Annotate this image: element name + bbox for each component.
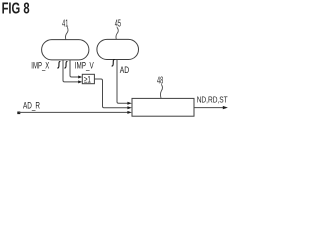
svg-text:AD: AD	[120, 65, 129, 75]
svg-text:AD_R: AD_R	[23, 101, 40, 111]
pulse symbol on AD wire	[112, 60, 115, 66]
wire output ND,RD,ST from block 48	[194, 107, 223, 109]
svg-text:IMP_X: IMP_X	[31, 60, 49, 70]
svg-text:IMP_V: IMP_V	[75, 60, 94, 70]
pulse symbol on IMP_X wire	[57, 62, 60, 68]
wire AD from block 45 to block 48 (top input)	[117, 60, 128, 104]
wire IMP_X from block 41 to OR gate lower input	[63, 60, 79, 82]
OR gate >=1	[82, 74, 94, 83]
leader line to label 41	[65, 27, 68, 40]
svg-text:ND,RD,ST: ND,RD,ST	[197, 94, 228, 104]
block 48	[132, 98, 194, 116]
wire AD_R to block 48 (bottom input)	[19, 111, 128, 113]
leader line to label 48	[160, 84, 162, 98]
svg-text:FIG 8: FIG 8	[2, 1, 30, 18]
block 45 (stadium)	[97, 39, 139, 59]
svg-text:45: 45	[115, 18, 121, 29]
wire OR gate output to block 48 (middle input)	[94, 79, 127, 108]
leader line to label 45	[116, 27, 118, 39]
svg-text:48: 48	[157, 75, 163, 86]
node marker at start of AD_R wire	[17, 112, 20, 115]
svg-text:41: 41	[62, 18, 68, 29]
wire IMP_V from block 41 to OR gate upper input	[70, 60, 79, 77]
block 41 (stadium)	[42, 40, 89, 60]
svg-text:≥1: ≥1	[84, 74, 91, 85]
pulse symbol on IMP_V wire	[64, 62, 67, 68]
